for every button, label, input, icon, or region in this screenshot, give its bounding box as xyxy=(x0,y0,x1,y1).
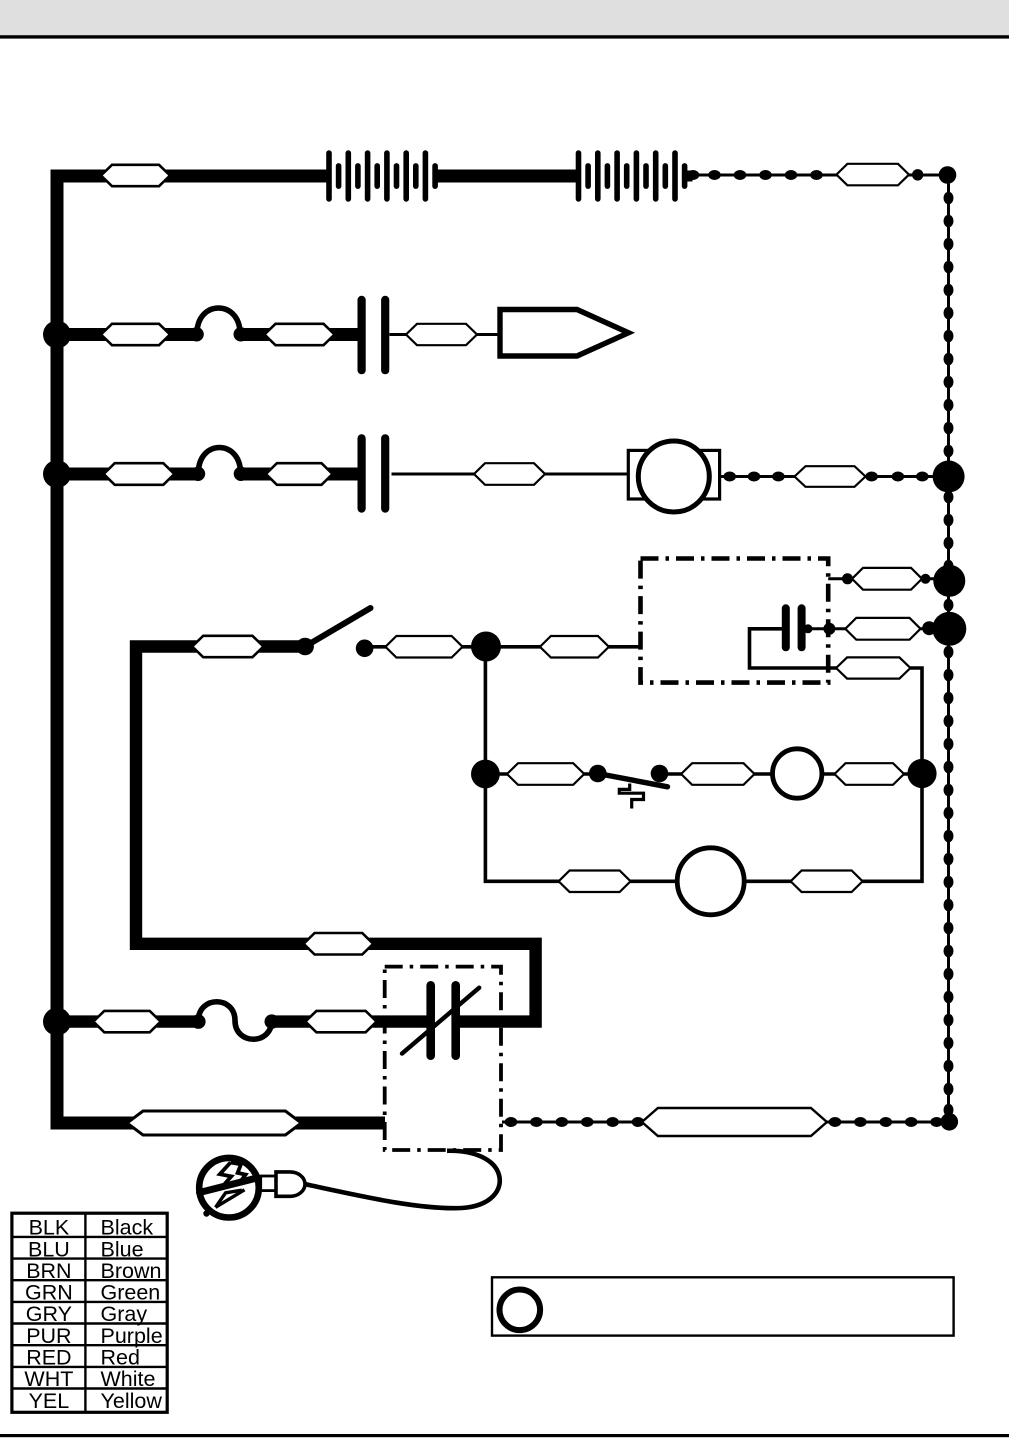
enclosure box E2 (dash-dot) around variable capacitor xyxy=(385,967,501,1150)
junction node: right bus row B xyxy=(932,612,966,646)
node: small dot on enclosure edge row B xyxy=(823,623,835,635)
wire: right bus dotted run xyxy=(944,176,954,1122)
svg-text:Black: Black xyxy=(101,1216,154,1240)
wire label hexagon (row3 a) xyxy=(104,463,175,485)
wire: relay row left thin segment xyxy=(485,772,598,775)
svg-text:Yellow: Yellow xyxy=(101,1389,163,1413)
wire label hexagon (switch row c) xyxy=(540,636,609,658)
wire label hexagon (HV row a) xyxy=(93,1011,160,1032)
lamp L1 (large circle) xyxy=(677,848,744,915)
enclosure box E1 (dash-dot) xyxy=(641,559,829,683)
svg-text:GRY: GRY xyxy=(26,1302,72,1326)
corner node: top right xyxy=(939,166,957,184)
node: small dot top wire before corner xyxy=(912,169,923,180)
wire: switch row thin segment to enclosure box xyxy=(365,645,641,649)
node: small dot enclosure row A right xyxy=(921,574,931,584)
node: small dot enclosure row A left xyxy=(842,573,853,584)
wire: enclosure row B thin segment xyxy=(806,627,949,630)
wire: row3 bold mid segment to capacitor xyxy=(241,468,363,481)
heater element E2 (battery-style bars) xyxy=(576,150,688,201)
spark ignitor: lightning bolt xyxy=(216,1163,246,1208)
svg-text:WHT: WHT xyxy=(24,1367,73,1391)
page header band xyxy=(0,0,1009,35)
wire label hexagon (enclosure row A) xyxy=(852,568,922,590)
wire label hexagon (row2 c) xyxy=(406,324,477,345)
page header rule xyxy=(0,35,1009,38)
wire label hexagon (row3 b) xyxy=(266,463,333,485)
spark ignitor: slash tail nub xyxy=(203,1210,209,1216)
wire label hexagon (enclosure row C) xyxy=(836,657,910,678)
ignitor connector: small rect xyxy=(261,1176,276,1191)
wire label hexagon (row2 a) xyxy=(101,324,170,345)
svg-text:BLU: BLU xyxy=(28,1237,70,1261)
connector arrow P1 (pentagon, row2) xyxy=(500,310,629,357)
switch S1 (open, interlock) xyxy=(296,608,373,657)
wire: row3 dotted run after motor xyxy=(721,472,948,482)
thermal cutout TC1 (row2 hump) xyxy=(189,308,247,341)
svg-text:Red: Red xyxy=(101,1346,140,1370)
wire: row2 thin segment after capacitor xyxy=(390,333,501,336)
wire: top run between heater elements (bold) xyxy=(435,170,580,183)
corner node: bottom right xyxy=(941,1113,959,1131)
color code legend table xyxy=(12,1213,167,1413)
wire label hexagon (top right) xyxy=(836,164,909,186)
switch S2 (closed, with actuator zigzag) xyxy=(589,765,668,809)
junction node: right bus row A xyxy=(933,565,965,597)
wire label hexagon (row3 c) xyxy=(474,463,545,485)
svg-text:RED: RED xyxy=(26,1346,71,1370)
wire: top dotted run to right bus xyxy=(687,170,948,180)
wire: relay row right thin segment xyxy=(660,772,923,775)
page footer rule xyxy=(0,1434,1009,1437)
spark ignitor: circle xyxy=(199,1158,259,1218)
wire label hexagon (HV top run) xyxy=(304,933,374,955)
relay coil K1 (small circle) xyxy=(773,749,822,798)
wire label hexagon (switch row a) xyxy=(192,636,263,657)
wire: row at y1021 bold left segment xyxy=(57,1015,199,1027)
svg-text:Gray: Gray xyxy=(101,1302,148,1326)
wire label hexagon (HV row b) xyxy=(305,1011,376,1032)
svg-text:BLK: BLK xyxy=(29,1216,70,1240)
wire label hexagon (row3 d) xyxy=(795,466,866,487)
wire label hexagon (row2 b) xyxy=(265,324,335,345)
svg-text:Blue: Blue xyxy=(101,1237,144,1261)
junction node: left bus row2 xyxy=(43,321,71,349)
wire label hexagon (bottom left long) xyxy=(127,1111,301,1135)
junction node: right bus row3 xyxy=(933,461,965,493)
junction node: relay row left xyxy=(471,760,500,789)
note box (bottom right) xyxy=(492,1277,954,1335)
svg-text:BRN: BRN xyxy=(26,1259,71,1283)
svg-text:Green: Green xyxy=(101,1281,161,1305)
junction node: switch row branch xyxy=(471,632,501,662)
wire: left bus + top feed + bottom-left run (bold) xyxy=(57,176,385,1123)
wire label hexagon (relay row b) xyxy=(681,763,754,785)
wire label hexagon (lamp row b) xyxy=(791,871,863,893)
note box circle marker xyxy=(500,1290,541,1331)
wire: row3 bold left segment xyxy=(57,468,199,481)
node: small dot enclosure row B right xyxy=(922,621,936,635)
capacitor C3 (inside enclosure E1) xyxy=(782,604,806,651)
wire label hexagon (switch row b) xyxy=(385,636,462,658)
wire label hexagon (enclosure row B) xyxy=(845,618,920,640)
svg-text:Purple: Purple xyxy=(101,1324,163,1348)
capacitor C2 (row3) xyxy=(358,434,390,513)
wire label hexagon (relay row a) xyxy=(507,763,584,785)
svg-text:White: White xyxy=(101,1367,156,1391)
wire: row2 bold left segment xyxy=(57,328,197,341)
wire: row3 thin segment after capacitor to motor xyxy=(392,473,631,476)
thermal cutout TC3 (S-shaped hump, HV row) xyxy=(191,1002,279,1040)
wire label hexagon (top feed) xyxy=(101,165,170,186)
svg-text:PUR: PUR xyxy=(26,1324,71,1348)
wire: row2 bold mid segment to capacitor xyxy=(240,328,362,341)
wire: bottom dotted run to right bus xyxy=(502,1117,948,1127)
junction node: left bus HV row xyxy=(43,1008,71,1036)
variable capacitor C4 (inside enclosure E2) xyxy=(402,981,479,1060)
spark ignitor: slash xyxy=(200,1178,258,1193)
junction node: left bus row3 xyxy=(43,460,71,488)
wire: row at y1021 bold mid segment to variable capacitor xyxy=(272,1015,431,1027)
wire: enclosure row A thin segment xyxy=(828,577,949,580)
ignitor cable (curved) xyxy=(306,1151,500,1208)
capacitor C1 (row2) xyxy=(358,296,390,375)
junction node: relay row right xyxy=(907,759,936,788)
thermal cutout TC2 (row3 hump) xyxy=(191,448,248,481)
wire label hexagon (lamp row a) xyxy=(559,871,631,893)
svg-text:YEL: YEL xyxy=(29,1389,70,1413)
node: small dot at capacitor C3 output xyxy=(804,624,813,633)
wire: HV loop switch row / verticals / transformer rows (bold) xyxy=(136,647,536,1022)
wire label hexagon (relay row c) xyxy=(835,763,905,785)
svg-text:Brown: Brown xyxy=(101,1259,162,1283)
heater element E1 (battery-style bars) xyxy=(326,150,438,201)
ignitor connector: D plug xyxy=(276,1172,305,1196)
wire label hexagon (bottom right long) xyxy=(642,1108,827,1136)
svg-text:GRN: GRN xyxy=(25,1281,73,1305)
wire: stub after second heater element xyxy=(684,171,693,182)
wire: branch loop (left vertical, lamp row, right vertical, capacitor return) xyxy=(485,629,922,882)
motor M1 (circle in bracket) xyxy=(628,441,719,512)
